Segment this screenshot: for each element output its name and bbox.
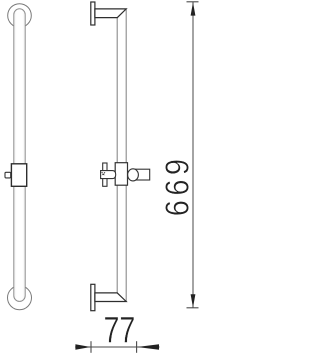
svg-text:77: 77: [103, 310, 135, 351]
svg-text:669: 669: [159, 155, 196, 217]
